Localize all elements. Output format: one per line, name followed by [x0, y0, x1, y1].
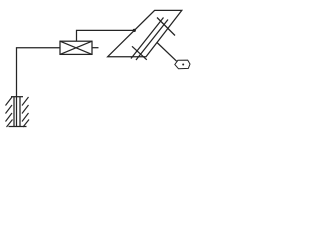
wavefront line 2 [136, 20, 168, 61]
cell plate outline [108, 10, 182, 56]
transducer right hatch [22, 97, 29, 127]
node junction dot on cell edge [133, 29, 136, 32]
diffracted ray to eye [157, 43, 177, 62]
wavefront line 1 [131, 18, 164, 59]
mixer U1 diagonal 2 [60, 41, 92, 54]
transducer X1 bottom cap [9, 126, 27, 128]
transducer left hatch [6, 97, 13, 127]
upper stroke across wavefronts [157, 18, 175, 36]
transducer X1 top cap [11, 96, 23, 98]
wire mixer top to cell [77, 30, 135, 41]
mixer U1 diagonal 1 [60, 41, 92, 54]
transducer X1 center rod [16, 97, 18, 127]
transducer X1 right plate [19, 97, 21, 127]
mixer U1 box [60, 41, 92, 54]
transducer X1 left plate [13, 97, 15, 127]
eye pupil [182, 64, 184, 66]
wire right of mixer [92, 47, 99, 49]
eye outline [175, 60, 190, 69]
wire left of mixer [17, 48, 61, 97]
lower stroke across wavefronts [132, 46, 147, 60]
